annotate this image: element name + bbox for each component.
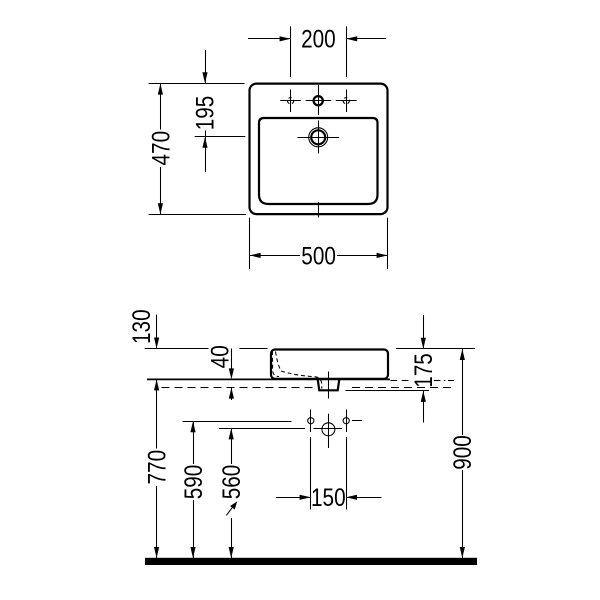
svg-text:500: 500 [301, 241, 336, 269]
svg-text:900: 900 [448, 435, 476, 470]
svg-text:200: 200 [301, 25, 336, 53]
svg-text:40: 40 [206, 345, 234, 368]
svg-text:560: 560 [217, 465, 245, 500]
svg-text:195: 195 [191, 96, 219, 131]
svg-text:770: 770 [143, 450, 171, 485]
svg-text:130: 130 [127, 309, 155, 344]
svg-text:150: 150 [311, 483, 346, 511]
svg-text:470: 470 [146, 131, 174, 166]
svg-text:175: 175 [409, 353, 437, 388]
svg-text:590: 590 [179, 465, 207, 500]
